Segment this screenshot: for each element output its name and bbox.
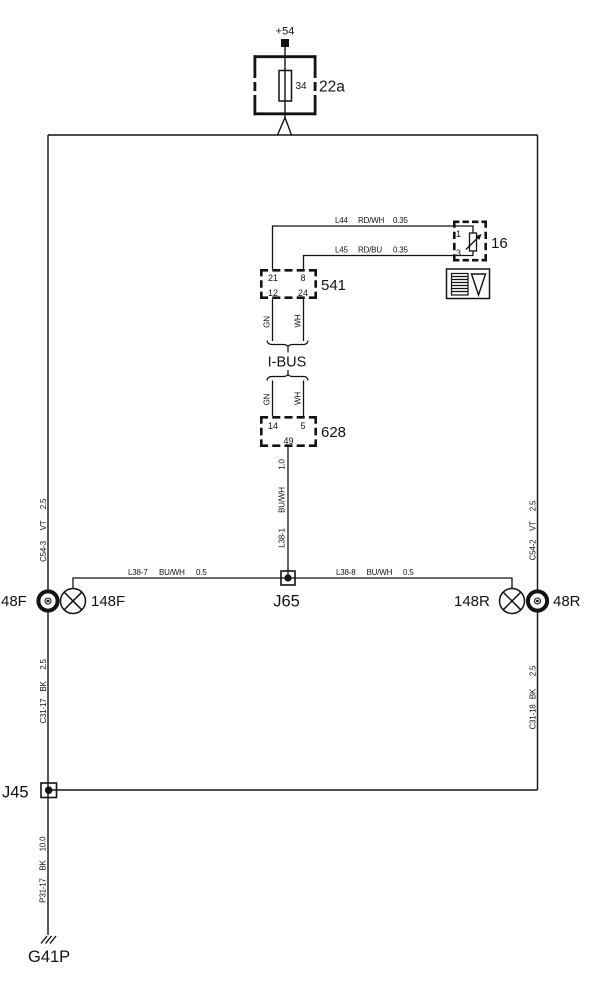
junction J45 box (41, 783, 57, 798)
svg-text:J65: J65 (273, 593, 300, 611)
wire L44 (RD/WH) (273, 226, 474, 269)
svg-text:628: 628 (321, 424, 346, 441)
wire from +54 into fuse box (284, 47, 286, 118)
svg-text:24: 24 (298, 288, 308, 298)
wire 628 pin49 to J65 (BU/WH) (287, 447, 289, 578)
svg-text:C31-17: C31-17 (39, 698, 48, 724)
wire L45 (RD/BU) (304, 251, 474, 269)
wire L38-8 lamp feed right (295, 578, 512, 589)
junction J45 dot (45, 786, 53, 794)
ground symbol G41P (41, 936, 56, 944)
svg-text:5: 5 (300, 421, 305, 431)
control unit 541 (dashed box) (260, 269, 317, 299)
icon triangle (472, 274, 486, 295)
svg-text:1: 1 (456, 229, 461, 239)
svg-text:BK: BK (39, 681, 48, 692)
wire split chevron below fuse (278, 118, 292, 136)
svg-text:VT: VT (529, 521, 538, 531)
bottom rail wire J45 to right (48, 789, 538, 791)
svg-text:48R: 48R (553, 593, 581, 610)
rheostat arrow (466, 237, 479, 250)
svg-text:3: 3 (456, 248, 461, 258)
junction J65 dot (284, 574, 291, 581)
wire 541 pin12 to I-BUS (GN) (272, 299, 274, 341)
svg-text:BU/WH: BU/WH (159, 568, 185, 577)
svg-text:21: 21 (268, 273, 278, 283)
svg-text:WH: WH (294, 392, 303, 405)
svg-text:14: 14 (268, 421, 278, 431)
svg-text:C54-2: C54-2 (529, 539, 538, 561)
svg-text:I-BUS: I-BUS (268, 355, 307, 371)
svg-text:RD/BU: RD/BU (358, 246, 382, 255)
lamp 148R (500, 589, 525, 614)
svg-text:49: 49 (283, 436, 293, 446)
svg-text:BU/WH: BU/WH (278, 487, 287, 513)
svg-text:C54-3: C54-3 (39, 540, 48, 562)
node +54 terminal square (281, 39, 289, 47)
svg-text:VT: VT (39, 520, 48, 530)
svg-text:0.35: 0.35 (393, 246, 409, 255)
svg-text:2.5: 2.5 (39, 498, 48, 509)
I-BUS dashed link top (287, 348, 289, 353)
svg-text:BU/WH: BU/WH (367, 568, 393, 577)
lamp 148F (61, 589, 86, 614)
wire I-BUS to 628 pin5 (WH) (303, 381, 305, 417)
svg-text:GN: GN (263, 393, 272, 405)
rheostat unit 16 (dashed box) (453, 221, 487, 262)
bulb socket 48R (528, 591, 547, 610)
svg-text:L38-7: L38-7 (128, 568, 148, 577)
svg-text:22a: 22a (319, 79, 345, 96)
svg-text:10.0: 10.0 (39, 836, 48, 852)
fuse 34 element (279, 71, 292, 102)
svg-text:L38-1: L38-1 (278, 528, 287, 548)
control unit 628 (dashed box) (260, 416, 317, 447)
svg-text:0.35: 0.35 (393, 216, 409, 225)
svg-text:0.5: 0.5 (403, 568, 414, 577)
svg-text:2.5: 2.5 (529, 500, 538, 511)
svg-text:48F: 48F (1, 593, 27, 610)
left vertical wire (47, 135, 49, 935)
wire L38-7 lamp feed left (73, 578, 281, 589)
svg-text:16: 16 (491, 235, 508, 252)
svg-text:L44: L44 (335, 216, 348, 225)
right vertical wire (537, 135, 539, 790)
top rail wire (48, 134, 538, 136)
junction J65 box (280, 577, 296, 579)
svg-text:148R: 148R (454, 593, 490, 610)
svg-text:L45: L45 (335, 246, 348, 255)
svg-text:0.5: 0.5 (196, 568, 207, 577)
I-BUS dashed link bottom (287, 370, 289, 375)
svg-text:C31-18: C31-18 (529, 704, 538, 730)
svg-text:34: 34 (296, 81, 308, 92)
fuse holder box 22a (dashed) (254, 55, 317, 115)
wire I-BUS to 628 pin14 (GN) (272, 381, 274, 417)
svg-text:WH: WH (294, 314, 303, 327)
illumination icon box (447, 269, 490, 299)
svg-text:148F: 148F (91, 593, 125, 610)
svg-text:541: 541 (321, 277, 346, 294)
svg-text:J45: J45 (2, 784, 29, 802)
I-BUS split brace bottom (267, 374, 308, 381)
svg-text:BK: BK (529, 688, 538, 699)
svg-text:L38-8: L38-8 (336, 568, 356, 577)
svg-text:BK: BK (39, 860, 48, 871)
svg-text:2.5: 2.5 (529, 665, 538, 676)
svg-text:G41P: G41P (28, 948, 70, 966)
I-BUS gather brace top (267, 341, 308, 348)
rheostat element (470, 233, 477, 251)
svg-text:2.5: 2.5 (39, 658, 48, 669)
svg-text:P31-17: P31-17 (39, 877, 48, 902)
svg-text:RD/WH: RD/WH (358, 216, 385, 225)
wire 541 pin24 to I-BUS (WH) (303, 299, 305, 341)
svg-text:+54: +54 (276, 26, 295, 38)
svg-text:1.0: 1.0 (278, 458, 287, 469)
svg-text:12: 12 (268, 288, 278, 298)
svg-text:GN: GN (263, 316, 272, 328)
icon striped rectangle (452, 274, 469, 296)
svg-text:8: 8 (300, 273, 305, 283)
bulb socket 48F (38, 591, 57, 610)
